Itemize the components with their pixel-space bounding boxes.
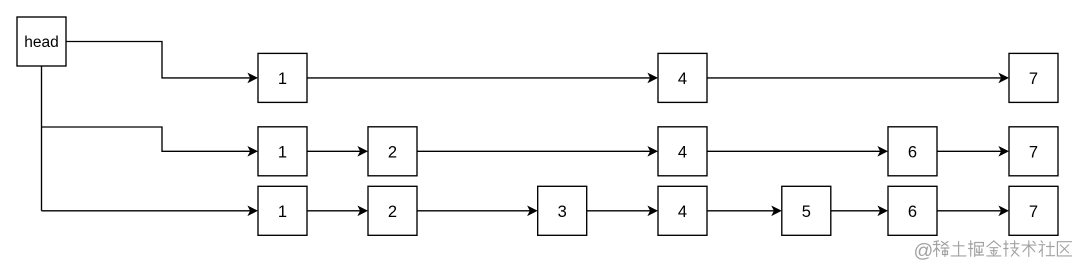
wire level2 4 to 6 [707, 150, 885, 152]
node 1 level1 [258, 53, 307, 102]
wire head to level3 node1 [42, 210, 256, 212]
svg-text:7: 7 [1029, 203, 1038, 221]
svg-text:3: 3 [558, 203, 567, 221]
svg-text:7: 7 [1029, 70, 1038, 88]
watermark glyph qu [1057, 242, 1071, 256]
wire level3 1 to 2 [307, 210, 365, 212]
svg-text:2: 2 [388, 203, 397, 221]
watermark glyph tu [951, 242, 966, 256]
wire level3 3 to 4 [587, 210, 655, 212]
watermark glyph xi [933, 241, 949, 257]
svg-text:5: 5 [802, 203, 811, 221]
node 2 level3 [368, 186, 417, 235]
wire level3 4 to 5 [707, 210, 779, 212]
svg-text:4: 4 [678, 70, 687, 88]
svg-text:6: 6 [908, 203, 917, 221]
node 5 level3 [782, 186, 831, 235]
svg-text:1: 1 [278, 143, 287, 161]
svg-text:4: 4 [678, 143, 687, 161]
node 7 level3 [1009, 186, 1058, 235]
wire head to level2 node1 [42, 127, 256, 151]
svg-text:@: @ [914, 240, 934, 262]
wire level3 6 to 7 [937, 210, 1006, 212]
node 3 level3 [538, 186, 587, 235]
svg-text:7: 7 [1029, 143, 1038, 161]
node 4 level3 [658, 186, 707, 235]
wire level1 1 to 4 [307, 77, 655, 79]
wire level3 2 to 3 [417, 210, 535, 212]
svg-text:1: 1 [278, 70, 287, 88]
watermark glyph jue [969, 241, 984, 257]
wire level3 5 to 6 [831, 210, 885, 212]
watermark glyph she [1039, 241, 1055, 257]
node 2 level2 [368, 127, 417, 176]
node 4 level1 [658, 53, 707, 102]
wire head vertical trunk [41, 66, 43, 211]
watermark @稀土掘金技术社区 [914, 240, 1072, 262]
node 6 level2 [888, 127, 937, 176]
node 4 level2 [658, 127, 707, 176]
node 1 level3 [258, 186, 307, 235]
node 6 level3 [888, 186, 937, 235]
node 7 level2 [1009, 127, 1058, 176]
wire level1 4 to 7 [707, 77, 1006, 79]
node head [17, 17, 66, 66]
node 1 level2 [258, 127, 307, 176]
wire level2 2 to 4 [417, 150, 655, 152]
watermark glyph shu [1022, 241, 1036, 257]
svg-text:6: 6 [908, 143, 917, 161]
wire level2 1 to 2 [307, 150, 365, 152]
wire head to level1 node1 [66, 42, 255, 78]
watermark glyph jin [987, 241, 1001, 256]
svg-text:head: head [24, 34, 58, 51]
svg-text:4: 4 [678, 203, 687, 221]
svg-text:2: 2 [388, 143, 397, 161]
wire level2 6 to 7 [937, 150, 1006, 152]
watermark glyph ji [1004, 241, 1019, 256]
node 7 level1 [1009, 53, 1058, 102]
svg-text:1: 1 [278, 203, 287, 221]
